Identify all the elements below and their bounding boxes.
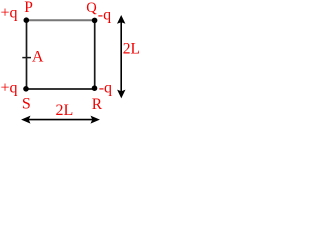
svg-text:P: P	[24, 0, 33, 16]
svg-text:-q: -q	[99, 79, 112, 96]
svg-text:2L: 2L	[123, 41, 140, 58]
svg-text:+q: +q	[1, 80, 18, 97]
svg-text:A: A	[32, 49, 44, 66]
svg-text:Q: Q	[86, 0, 97, 16]
svg-text:-q: -q	[98, 6, 111, 23]
svg-text:+q: +q	[1, 5, 18, 22]
svg-text:R: R	[92, 96, 103, 113]
svg-text:S: S	[22, 95, 31, 112]
svg-text:2L: 2L	[56, 102, 74, 119]
